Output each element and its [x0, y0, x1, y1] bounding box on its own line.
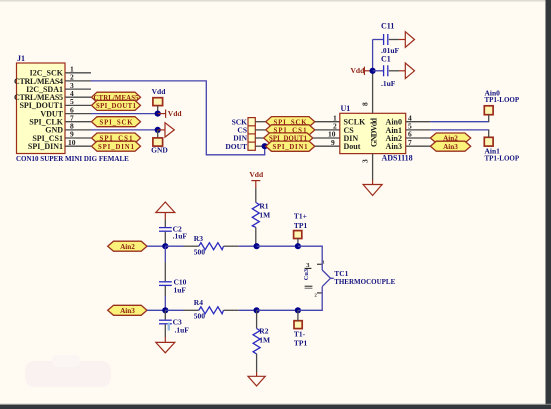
- svg-text:Cu3: Cu3: [303, 269, 310, 280]
- header SCK/CS/DIN/DOUT: [225, 117, 255, 151]
- junction Ain3 node: [162, 307, 168, 313]
- op IC U1 ADS1118: [340, 104, 413, 163]
- wire SPI_SCK to U1 pin1: [315, 113, 340, 122]
- svg-text:.1uF: .1uF: [173, 231, 188, 240]
- wire Ain1: [430, 129, 489, 131]
- J1 pin 10: [65, 138, 91, 147]
- svg-text:TP1-LOOP: TP1-LOOP: [485, 154, 520, 162]
- svg-text:TP1: TP1: [294, 338, 308, 347]
- net label SPI_DOUT1: [92, 100, 141, 110]
- ground arrow C1: [405, 63, 414, 79]
- svg-text:ADS1118: ADS1118: [382, 154, 413, 163]
- wire Ain2 node to C10: [164, 246, 166, 281]
- junction on VDUT line: [155, 111, 161, 117]
- ground arrow right: [158, 123, 175, 137]
- svg-text:Ain3: Ain3: [120, 307, 135, 315]
- svg-text:SPI_DIN1: SPI_DIN1: [98, 144, 135, 151]
- net label CTRL/MEAS5: [92, 92, 141, 102]
- svg-text:GND: GND: [151, 146, 168, 155]
- J1 pin 7: [65, 113, 91, 122]
- svg-text:500: 500: [194, 312, 206, 321]
- net label SPI_SCK: [92, 117, 141, 127]
- svg-text:Ain3: Ain3: [386, 142, 402, 151]
- wire R1 node to T1+ node: [257, 245, 298, 247]
- wire J1 pin2 to DOUT net: [91, 81, 265, 155]
- net label SPI_DIN1: [92, 141, 141, 151]
- wire R2 node to T1- node: [257, 309, 298, 311]
- U1 pin 3 (GND bottom): [361, 154, 373, 185]
- test point Ain0 TP1-LOOP: [484, 88, 520, 121]
- J1 pin 2: [65, 73, 91, 82]
- net label SPI_CS1 (U1): [266, 125, 315, 135]
- wire DIN row: [255, 137, 265, 139]
- wire T1+ node to TC1 top: [298, 246, 322, 270]
- junction on DOUT row: [262, 143, 268, 149]
- net label Ain3 (U1): [430, 141, 470, 151]
- wire SCK row: [255, 121, 265, 123]
- net label Ain2 (bottom): [108, 241, 166, 251]
- net label Ain3 (bottom): [108, 305, 166, 315]
- resistor R3 500: [194, 234, 257, 257]
- wire Ain3 node to R4: [165, 309, 199, 311]
- svg-text:.1uF: .1uF: [381, 79, 396, 88]
- net label SPI_SCK (U1): [266, 117, 315, 127]
- svg-text:T1+: T1+: [294, 212, 307, 221]
- power port Vdd (square): [152, 87, 167, 114]
- junction T1+ node: [295, 243, 301, 249]
- svg-text:SPI_DOUT1: SPI_DOUT1: [96, 103, 137, 110]
- svg-text:THERMOCOUPLE: THERMOCOUPLE: [334, 278, 395, 286]
- resistor R2 1M: [253, 310, 270, 376]
- wire SPI_DOUT1 to U1 pin10: [313, 130, 340, 139]
- J1 pin 8: [65, 122, 91, 131]
- svg-text:Vdd: Vdd: [351, 66, 366, 75]
- test point T1- TP1: [294, 310, 308, 347]
- svg-text:Vdd: Vdd: [168, 109, 183, 118]
- junction T1- node: [295, 307, 301, 313]
- power tap Vdd (C1): [351, 66, 373, 75]
- wire CS row: [255, 129, 265, 131]
- wire T1- node to TC1 bottom: [298, 287, 322, 311]
- J1 pin 1: [65, 65, 91, 74]
- power tap Vdd right: [158, 109, 183, 118]
- svg-text:Vdd: Vdd: [249, 170, 264, 179]
- U1 pin 7: [406, 138, 431, 147]
- svg-text:TC1: TC1: [334, 269, 348, 278]
- net label SPI_CS1: [92, 133, 141, 143]
- capacitor C1: [373, 55, 406, 89]
- wire Ain0: [430, 121, 489, 123]
- svg-text:8: 8: [361, 102, 370, 106]
- U1 pin 4: [406, 113, 431, 122]
- net label SPI_DOUT1 (U1): [264, 133, 313, 143]
- capacitor C10: [159, 278, 187, 311]
- svg-text:9: 9: [331, 138, 335, 147]
- wire Vdd vertical to caps: [372, 40, 374, 71]
- wire Ain2 node to R3: [165, 245, 199, 247]
- J1 pin 3: [65, 81, 91, 90]
- capacitor C3: [159, 310, 189, 342]
- wire J1 pin6 to Vdd: [91, 113, 158, 115]
- svg-text:.1uF: .1uF: [175, 326, 190, 335]
- junction C1/Vdd: [370, 68, 376, 74]
- junction Ain2 node: [162, 243, 168, 249]
- svg-text:DOUT: DOUT: [225, 142, 247, 151]
- svg-text:Ain3: Ain3: [443, 143, 458, 151]
- svg-text:10: 10: [68, 138, 76, 147]
- J1 pin 6: [65, 105, 91, 114]
- down triangle below C3: [156, 342, 175, 352]
- net label SPI_DIN1 (U1): [266, 141, 315, 151]
- wire SPI_CS1 to U1 pin2: [315, 122, 340, 131]
- up triangle above C2: [156, 202, 175, 213]
- test point T1+ TP1: [294, 212, 308, 247]
- svg-text:J1: J1: [17, 54, 25, 63]
- svg-text:7: 7: [408, 138, 412, 147]
- connector J1: [14, 54, 129, 163]
- J1 pin 9: [65, 130, 91, 139]
- U1 pin 5: [406, 122, 431, 131]
- svg-text:TP1: TP1: [294, 221, 308, 230]
- J1 pin 4: [65, 89, 91, 98]
- svg-text:TP1-LOOP: TP1-LOOP: [485, 96, 520, 104]
- svg-text:1uF: 1uF: [174, 286, 187, 295]
- test point Ain1 TP1-LOOP: [484, 130, 520, 162]
- svg-text:R4: R4: [194, 298, 203, 307]
- power tap Vdd (R1): [249, 170, 264, 203]
- svg-text:U1: U1: [341, 104, 351, 113]
- U1 pin 6: [406, 130, 431, 139]
- svg-text:CON10 SUPER MINI DIG FEMALE: CON10 SUPER MINI DIG FEMALE: [16, 155, 129, 163]
- svg-text:3: 3: [361, 159, 370, 163]
- svg-text:500: 500: [194, 248, 206, 257]
- power port GND (square): [151, 130, 168, 155]
- resistor R4 500: [194, 298, 257, 321]
- ground symbol U1: [363, 185, 382, 196]
- svg-text:Dout: Dout: [344, 142, 361, 151]
- svg-text:SPI_DIN1: SPI_DIN1: [28, 142, 63, 151]
- net label Ain2 (U1): [430, 133, 470, 143]
- svg-text:1M: 1M: [259, 210, 270, 219]
- ground arrow C11: [405, 32, 414, 48]
- J1 pin 5: [65, 97, 91, 106]
- junction on GND line: [155, 127, 161, 133]
- svg-text:1M: 1M: [259, 335, 270, 344]
- svg-text:Vdd: Vdd: [152, 87, 167, 96]
- svg-text:SPI_DIN1: SPI_DIN1: [273, 144, 309, 151]
- U1 pin 8 (Vdd top): [361, 71, 373, 114]
- ground symbol R2: [248, 376, 265, 386]
- wire DOUT row: [255, 145, 265, 147]
- svg-text:T1-: T1-: [294, 330, 306, 339]
- capacitor C11: [373, 22, 406, 56]
- svg-text:C1: C1: [381, 55, 391, 64]
- svg-text:Ain2: Ain2: [120, 243, 135, 251]
- capacitor C2: [159, 213, 187, 247]
- svg-text:SPI_SCK: SPI_SCK: [100, 119, 134, 126]
- thermocouple TC1: [303, 260, 396, 298]
- svg-text:R3: R3: [194, 234, 203, 243]
- svg-text:GNDVdd: GNDVdd: [370, 117, 379, 147]
- junction R1 node: [254, 243, 260, 249]
- wire J1 pin8 to GND: [91, 129, 158, 131]
- junction R2 node: [254, 307, 260, 313]
- resistor R1 1M: [252, 202, 270, 247]
- wire SPI_DIN1 to U1 pin9: [315, 138, 340, 147]
- svg-text:R1: R1: [259, 202, 268, 211]
- svg-text:C11: C11: [381, 22, 394, 31]
